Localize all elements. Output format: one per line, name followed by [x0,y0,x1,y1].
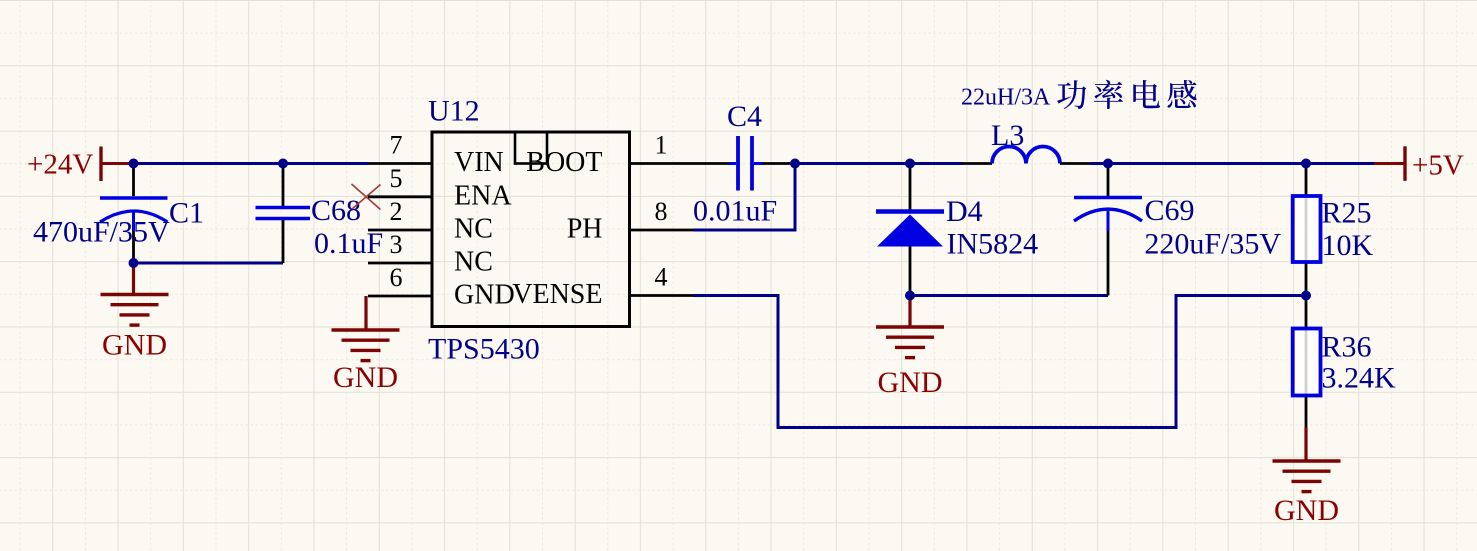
capacitor C69 [1074,164,1281,296]
diode D4 [876,164,1038,296]
junction [129,258,139,268]
svg-text:+24V: +24V [27,149,93,181]
wire [134,262,284,265]
junction [905,291,915,301]
junction [129,159,139,169]
ground [101,263,169,362]
resistor R25 [1293,164,1374,296]
inductor L3 [962,119,1090,164]
svg-text:GND: GND [454,280,515,311]
junction [278,159,288,169]
wire [1090,162,1374,165]
svg-text:GND: GND [878,366,943,399]
svg-text:D4: D4 [946,195,983,228]
svg-text:10K: 10K [1322,229,1374,262]
wire [693,164,795,231]
svg-text:TPS5430: TPS5430 [428,333,540,366]
svg-text:BOOT: BOOT [526,147,602,178]
wire [134,162,369,165]
pin 2 NC [368,197,493,245]
svg-text:L3: L3 [991,119,1024,152]
resistor R36 [1293,296,1396,428]
pin 3 NC [368,230,493,278]
svg-text:NC: NC [454,247,493,278]
wire [693,296,1306,428]
junction [790,159,800,169]
no-ERC marker X [352,184,381,210]
svg-text:PH: PH [567,214,603,245]
svg-text:+5V: +5V [1412,150,1464,182]
svg-text:GND: GND [102,329,167,362]
svg-text:C4: C4 [727,100,762,133]
svg-text:0.01uF: 0.01uF [693,195,777,228]
capacitor C4 [693,100,795,228]
svg-text:8: 8 [655,197,668,226]
svg-text:4: 4 [655,263,668,292]
svg-text:7: 7 [390,131,403,160]
svg-text:IN5824: IN5824 [947,228,1039,261]
label 22uH/3A power inductor [961,80,1197,111]
capacitor C1 [33,164,204,264]
ground [876,296,944,400]
wire [795,162,962,165]
junction [1301,291,1311,301]
ground [332,296,400,394]
svg-text:2: 2 [390,197,403,226]
svg-text:R36: R36 [1322,331,1372,364]
IC U12 TPS5430 [428,95,630,366]
svg-text:5: 5 [390,164,403,193]
svg-text:6: 6 [390,263,403,292]
svg-text:3: 3 [390,230,403,259]
pin 5 ENA [368,164,512,212]
svg-text:220uF/35V: 220uF/35V [1144,228,1281,261]
pin 4 VENSE [512,263,693,311]
svg-text:C68: C68 [311,194,361,227]
svg-text:GND: GND [333,361,398,394]
svg-text:0.1uF: 0.1uF [314,227,383,260]
svg-text:R25: R25 [1322,197,1372,230]
power port +24V [27,147,135,182]
junction [1103,159,1113,169]
junction [905,159,915,169]
capacitor C68 [256,164,384,264]
svg-text:3.24K: 3.24K [1322,362,1397,395]
pin 6 GND [368,263,515,311]
svg-text:ENA: ENA [454,180,512,211]
svg-text:U12: U12 [428,95,480,128]
svg-text:C69: C69 [1145,194,1195,227]
svg-text:VIN: VIN [454,147,504,178]
svg-text:NC: NC [454,214,493,245]
svg-text:GND: GND [1274,494,1339,527]
wire [910,294,1108,297]
svg-text:22uH/3A: 22uH/3A [961,85,1051,111]
svg-text:C1: C1 [169,196,204,229]
pin 8 PH [567,197,693,245]
pin 7 VIN [368,131,504,179]
junction [1301,159,1311,169]
svg-text:470uF/35V: 470uF/35V [33,216,170,249]
ground [1273,428,1341,528]
svg-text:1: 1 [655,131,668,160]
power port +5V [1374,146,1464,181]
pin 1 BOOT [526,131,693,179]
svg-text:VENSE: VENSE [512,279,602,310]
